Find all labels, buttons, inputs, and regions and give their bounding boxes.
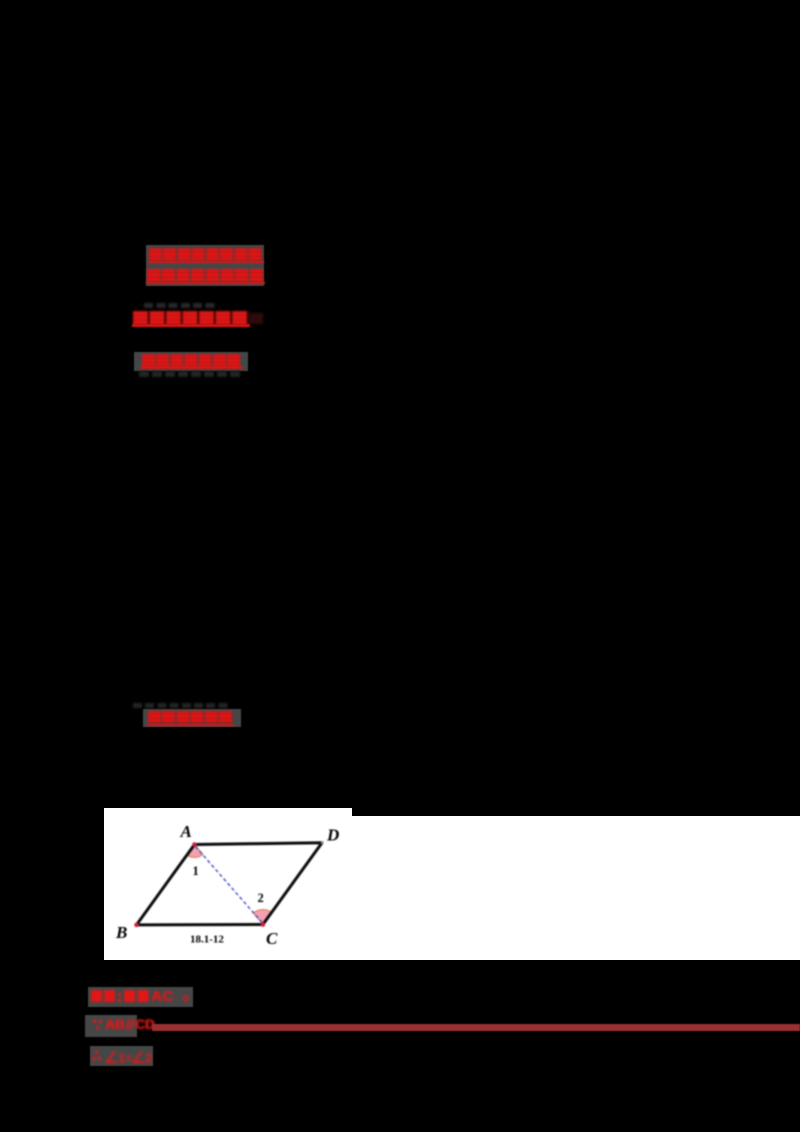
white band (right) bbox=[352, 816, 800, 960]
svg-text:=: = bbox=[125, 1051, 133, 1066]
parallel sign bbox=[125, 1019, 129, 1030]
answer line A: highlight bbox=[88, 987, 193, 1007]
ideographic full stop after AC bbox=[181, 994, 190, 1003]
red heading line 3 (CJK blobs, larger) bbox=[133, 311, 249, 325]
therefore sign + angle 1 = angle 2 bbox=[92, 1049, 154, 1065]
svg-text:A: A bbox=[180, 822, 192, 841]
highlight behind red line 4 bbox=[134, 352, 248, 371]
angle arc 2 at C (pink sector) bbox=[253, 909, 272, 924]
angle symbol 2 bbox=[134, 1052, 144, 1063]
diagonal AC (blue dashed) bbox=[196, 847, 263, 923]
faint gray glyph tops above mid red line bbox=[133, 703, 230, 708]
red underline line 1 bbox=[148, 261, 264, 264]
faint gray glyph tops above line 3 bbox=[144, 303, 218, 308]
white image box (left, slightly taller) bbox=[104, 808, 352, 960]
angle arc 1 at A (pink sector) bbox=[187, 845, 203, 858]
mid red line (CJK blobs) bbox=[148, 711, 234, 724]
CD bbox=[135, 1017, 161, 1031]
red underline line 4 bbox=[141, 366, 242, 369]
red title line 2 (CJK blobs) bbox=[147, 269, 264, 282]
red underline line 3 (thick) bbox=[132, 324, 250, 327]
answer line A: red CJK blobs + colon + AC. bbox=[91, 990, 116, 1002]
svg-text:2: 2 bbox=[145, 1051, 152, 1066]
svg-text:B: B bbox=[115, 923, 127, 942]
vertex dot B bbox=[134, 923, 139, 928]
faint gray glyph row below line 4 bbox=[139, 371, 240, 377]
red line 4 (CJK blobs) bbox=[142, 354, 242, 367]
highlight behind mid red line bbox=[143, 709, 241, 727]
vertex dot C bbox=[261, 922, 266, 927]
vertex dot A bbox=[192, 842, 197, 847]
red title line 1 (CJK blobs) bbox=[149, 248, 263, 261]
parallelogram ABCD edges bbox=[137, 843, 323, 925]
svg-text:C: C bbox=[266, 929, 278, 948]
vertex dot D (faint) bbox=[321, 842, 323, 844]
angle symbol 1 bbox=[107, 1052, 117, 1063]
highlight block behind red title lines 1-2 bbox=[146, 245, 264, 286]
svg-text:1: 1 bbox=[193, 864, 199, 878]
therefore dots bbox=[95, 1051, 98, 1054]
svg-text:D: D bbox=[326, 826, 339, 845]
faint dark red tail right of line 3 bbox=[249, 313, 263, 324]
answer line C: highlight bbox=[90, 1046, 153, 1066]
red underline line 2 bbox=[146, 282, 265, 284]
mid red underline bbox=[147, 724, 234, 727]
answer line B: highlight bbox=[85, 1015, 137, 1037]
AB bbox=[105, 1017, 129, 1031]
parallelogram diagram svg bbox=[104, 808, 352, 960]
because sign (three dots) bbox=[93, 1020, 96, 1023]
svg-text:18.1-12: 18.1-12 bbox=[190, 934, 224, 946]
svg-text:2: 2 bbox=[258, 891, 264, 905]
long dark red rule to right margin bbox=[152, 1024, 800, 1031]
